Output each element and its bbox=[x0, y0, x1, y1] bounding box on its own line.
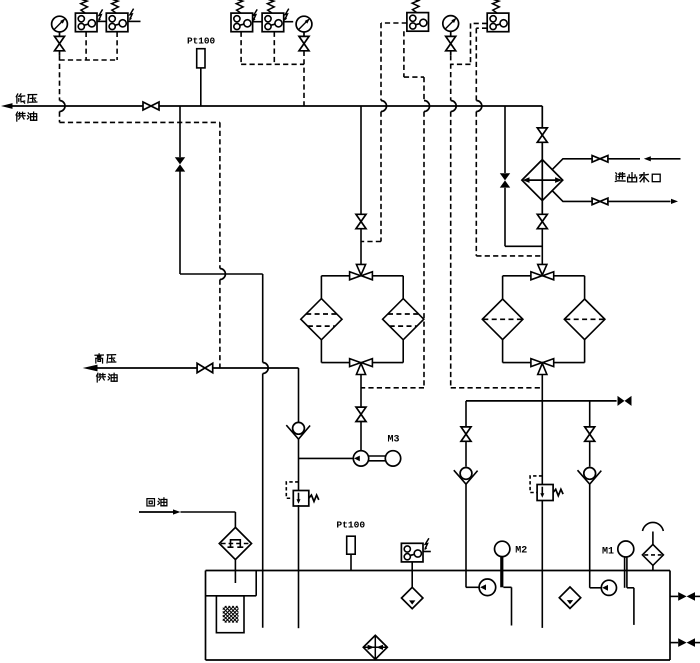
svg-text:M3: M3 bbox=[388, 434, 400, 445]
svg-text:M2: M2 bbox=[515, 546, 527, 557]
svg-text:Pt100: Pt100 bbox=[336, 520, 365, 531]
svg-text:M1: M1 bbox=[602, 547, 614, 558]
svg-text:Pt100: Pt100 bbox=[187, 36, 216, 47]
